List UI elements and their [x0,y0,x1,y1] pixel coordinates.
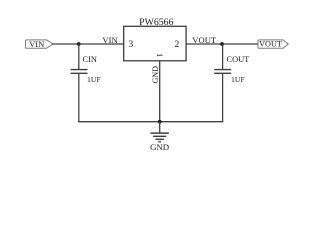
svg-text:1UF: 1UF [87,75,102,84]
node junction right [220,42,224,46]
wire right vertical upper (junction to COUT) [222,44,224,69]
node junction left [77,42,81,46]
svg-text:VOUT: VOUT [259,40,282,49]
capacitor COUT [214,70,231,74]
wire pin 2 to VOUT port [186,43,258,45]
node junction bottom [158,120,162,124]
svg-text:GND: GND [151,66,160,84]
port VOUT [258,40,288,49]
wire right vertical lower (COUT to rail) [222,73,224,122]
svg-text:PW6566: PW6566 [139,17,173,28]
svg-text:VIN: VIN [102,35,118,45]
svg-text:COUT: COUT [227,55,250,64]
svg-text:2: 2 [175,39,180,50]
svg-text:VOUT: VOUT [192,35,217,45]
svg-text:CIN: CIN [83,55,97,64]
svg-text:GND: GND [150,142,169,152]
svg-text:3: 3 [129,39,134,50]
svg-text:VIN: VIN [29,39,44,49]
svg-text:1: 1 [155,53,165,57]
wire VIN port to pin 3 [52,43,124,45]
port VIN [26,39,54,49]
wire left vertical lower (CIN to rail) [78,73,80,122]
wire IC GND pin down to rail [159,61,161,122]
IC U1 PW6566 body [124,26,186,61]
ground [151,122,169,142]
capacitor CIN [71,70,88,74]
wire bottom ground rail [78,121,223,123]
wire left vertical upper (junction to CIN) [78,44,80,69]
svg-text:1UF: 1UF [231,75,246,84]
